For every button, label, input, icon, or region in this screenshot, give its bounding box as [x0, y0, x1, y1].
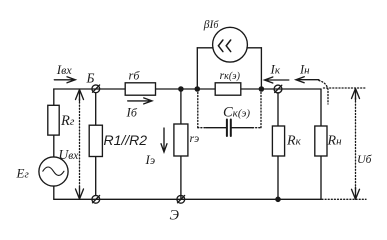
resistor Rн	[315, 126, 327, 156]
wire Rк branch upper	[277, 93, 279, 126]
arrow Iэ	[161, 128, 167, 152]
measurement Uб dotted extension bottom	[322, 198, 366, 200]
arrow Iк	[265, 77, 289, 83]
svg-text:Б: Б	[86, 70, 95, 85]
wire top rail	[54, 88, 321, 90]
wire left branch lower	[53, 186, 55, 199]
junction dot right of rк(э)	[259, 87, 263, 91]
svg-text:rк(э): rк(э)	[220, 68, 241, 82]
dotted path of Iн	[319, 81, 328, 105]
junction dot left of rк(э)	[195, 87, 199, 91]
wire Rк branch lower	[277, 156, 279, 199]
svg-text:βIб: βIб	[203, 19, 220, 31]
terminal Э	[177, 195, 185, 203]
svg-text:rэ: rэ	[190, 131, 200, 145]
source Eг	[39, 157, 68, 186]
svg-text:Ск(э): Ск(э)	[223, 104, 250, 120]
svg-text:Rк: Rк	[286, 133, 302, 148]
svg-text:Uвх: Uвх	[59, 147, 80, 162]
wire rэ branch upper	[180, 89, 182, 124]
arrow Iвх	[54, 77, 75, 83]
current source βIб	[197, 27, 261, 89]
wire Rн branch lower	[320, 156, 322, 199]
svg-text:Eг: Eг	[16, 166, 30, 181]
svg-text:Uб: Uб	[357, 152, 373, 166]
resistor Rк	[272, 126, 284, 156]
svg-text:Rн: Rн	[327, 133, 343, 148]
svg-text:Iэ: Iэ	[145, 152, 156, 167]
wire left branch middle	[53, 135, 55, 157]
terminal input common	[92, 195, 100, 203]
measurement arrow Uб	[352, 89, 360, 200]
svg-text:Iн: Iн	[299, 63, 310, 77]
arrow Iн	[296, 77, 319, 83]
junction dot B'	[179, 87, 183, 91]
svg-text:Iб: Iб	[126, 105, 138, 120]
svg-text:Э: Э	[170, 208, 180, 224]
svg-text:R1//R2: R1//R2	[104, 132, 148, 148]
measurement Uб dotted extension top	[324, 87, 367, 89]
wire Rн branch upper	[320, 89, 322, 126]
resistor Rг	[48, 105, 59, 135]
capacitor Cк(э)	[198, 93, 261, 137]
wire bottom rail	[54, 198, 321, 200]
node Б terminal	[92, 85, 100, 93]
node К terminal	[274, 85, 282, 93]
resistor rэ	[174, 124, 188, 156]
wire rэ branch lower	[180, 156, 182, 199]
measurement arrow Uвх	[76, 90, 84, 200]
svg-text:Iк: Iк	[270, 62, 281, 77]
wire Б to R1//R2	[95, 93, 97, 125]
wire left branch upper	[53, 89, 55, 106]
junction dot Rк bottom	[276, 197, 280, 201]
svg-text:rб: rб	[129, 69, 141, 83]
resistor rб	[125, 83, 155, 95]
resistor R1//R2	[89, 125, 102, 156]
arrow Iб	[128, 98, 152, 104]
wire R1//R2 to bottom	[95, 157, 97, 196]
svg-text:Rг: Rг	[60, 113, 75, 129]
svg-text:Iвх: Iвх	[56, 62, 73, 77]
resistor rк(э)	[215, 83, 241, 95]
